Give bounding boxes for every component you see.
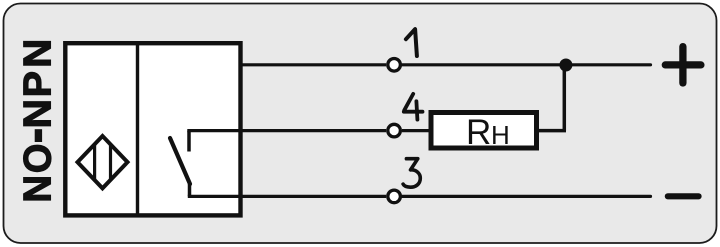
svg-text:N: N	[16, 175, 59, 203]
svg-text:H: H	[491, 120, 510, 150]
svg-text:N: N	[16, 39, 59, 68]
svg-text:N: N	[16, 99, 59, 129]
svg-text:O: O	[16, 144, 59, 174]
svg-text:P: P	[16, 71, 60, 97]
svg-text:R: R	[466, 113, 491, 152]
